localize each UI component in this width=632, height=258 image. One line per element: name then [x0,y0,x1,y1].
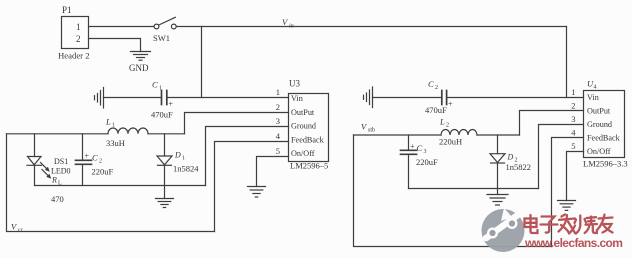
svg-text:1: 1 [276,87,280,97]
capacitor C2 220uF branch [76,134,114,186]
svg-text:SW1: SW1 [153,33,170,43]
svg-text:www.elecfans.com: www.elecfans.com [524,236,622,250]
wire stage1 output loop (Vcc) [7,134,215,232]
svg-text:2: 2 [571,101,575,111]
capacitor C3 470uF [425,79,453,115]
switch SW1 [153,17,176,43]
diode D2 1n5822 branch [490,135,531,189]
wire U4 pin2 OutPut [520,111,584,136]
svg-text:D: D [507,153,514,162]
svg-text:5: 5 [571,141,575,151]
wire C1 input rail [104,97,162,99]
svg-text:LM2596–3.3: LM2596–3.3 [583,158,628,168]
svg-text:2: 2 [99,159,102,165]
wire U3 pin2 OutPut [185,113,289,134]
svg-text:On/Off: On/Off [587,147,611,156]
svg-text:DS1: DS1 [54,157,68,166]
svg-text:Header 2: Header 2 [58,50,90,60]
wire U4 pin5 On/Off [567,152,584,201]
svg-text:470uF: 470uF [425,105,447,115]
inductor L1 33uH [105,117,148,149]
友 [598,215,613,233]
capacitor C1 470uF [151,80,174,120]
LED DS1 branch wire [34,134,36,157]
wire U3 pin5 On/Off [257,157,289,187]
svg-text:+: + [169,100,174,109]
svg-text:3: 3 [571,114,575,124]
diode D1 1n5824 branch [157,134,199,186]
电 [525,215,538,233]
svg-text:3: 3 [424,149,427,155]
wire rail drop to U4 pin1 [566,27,568,98]
svg-text:L: L [105,117,111,127]
svg-text:R: R [51,176,57,185]
watermark logo [482,207,528,252]
svg-text:C: C [428,79,434,89]
烧 [575,216,598,234]
svg-text:in: in [289,24,294,30]
svg-text:Ground: Ground [291,122,316,131]
svg-text:stb: stb [368,128,375,134]
svg-text:C: C [417,143,423,153]
svg-text:OutPut: OutPut [291,108,315,117]
svg-text:OutPut: OutPut [587,107,611,116]
svg-text:220uH: 220uH [439,137,462,147]
svg-text:D: D [174,151,181,160]
svg-text:470: 470 [51,194,64,204]
svg-text:1: 1 [182,156,185,162]
ground (sideways) stage2 input [364,87,373,108]
ground under D2 [487,189,508,206]
svg-text:4: 4 [594,85,597,91]
wire C3 input rail stage2 [373,97,442,99]
svg-text:LM2596–5: LM2596–5 [290,161,328,171]
wire U4 pin3 Ground [539,125,584,189]
svg-text:+: + [448,100,453,109]
wire U3 pin3 Ground [206,127,289,186]
watermark text www.elecfans.com [524,236,622,250]
svg-text:cc: cc [18,228,24,234]
pin numbers U3 [276,87,281,156]
svg-text:220uF: 220uF [416,157,438,167]
svg-text:+: + [85,152,90,161]
svg-text:Vin: Vin [587,93,599,102]
svg-text:1: 1 [159,86,162,92]
op-amp U4 LM2596-3.3 regulator box [583,79,628,169]
svg-text:FeedBack: FeedBack [587,134,621,143]
connector P1 [58,5,90,60]
svg-text:FeedBack: FeedBack [291,135,325,144]
svg-text:LED0: LED0 [51,167,71,176]
pin numbers U4 [571,87,576,151]
ground under U4 pin5 [558,201,576,211]
svg-text:GND: GND [129,63,149,73]
wire stage1 ground bus [35,185,206,187]
wire stage2 output node [354,134,442,136]
发 [559,215,576,234]
LED DS1 [27,157,71,205]
子 [541,217,558,233]
svg-text:220uF: 220uF [92,167,114,177]
wire Vin top rail [176,26,566,28]
svg-text:C: C [92,153,98,163]
svg-text:1n5822: 1n5822 [506,162,532,172]
svg-text:5: 5 [276,146,280,156]
svg-text:On/Off: On/Off [291,149,315,158]
wire U4 pin4 FeedBack [552,138,584,247]
inductor L2 220uH [439,117,477,147]
svg-text:1: 1 [112,123,115,129]
svg-text:1: 1 [571,87,575,97]
svg-text:Ground: Ground [587,120,612,129]
svg-text:2: 2 [76,34,81,44]
svg-text:470uF: 470uF [151,110,173,120]
svg-text:+: + [410,142,415,151]
svg-text:1n5824: 1n5824 [173,164,199,174]
svg-text:P1: P1 [62,5,72,15]
svg-text:2: 2 [446,123,449,129]
wire stage2 output loop [354,135,552,247]
ground GND under P1 [129,52,151,74]
wire stage1 output node [7,133,109,135]
svg-text:C: C [152,80,158,90]
capacitor C4 220uF branch [401,135,439,189]
svg-text:2: 2 [435,85,438,91]
svg-text:Vin: Vin [291,94,303,103]
svg-text:1: 1 [76,22,81,32]
op-amp U3 LM2596-5 regulator box [289,79,329,171]
svg-text:L: L [439,117,445,127]
svg-text:2: 2 [276,102,280,112]
wire P1 pin2 to ground [89,39,141,52]
wire rail drop to C1 wire [201,27,203,98]
watermark text 电子发烧友 (vector strokes) [525,215,613,234]
wire stage2 ground bus [409,188,539,190]
ground under D1 [156,186,174,208]
ground (sideways) stage1 input [95,88,104,109]
wire U3 pin4 FeedBack [215,142,289,232]
wire P1 pin1 to SW1 [89,26,155,28]
svg-text:U3: U3 [289,79,300,89]
ground under U3 pin5 [248,187,266,198]
svg-text:33uH: 33uH [106,138,125,148]
svg-text:3: 3 [276,116,280,126]
